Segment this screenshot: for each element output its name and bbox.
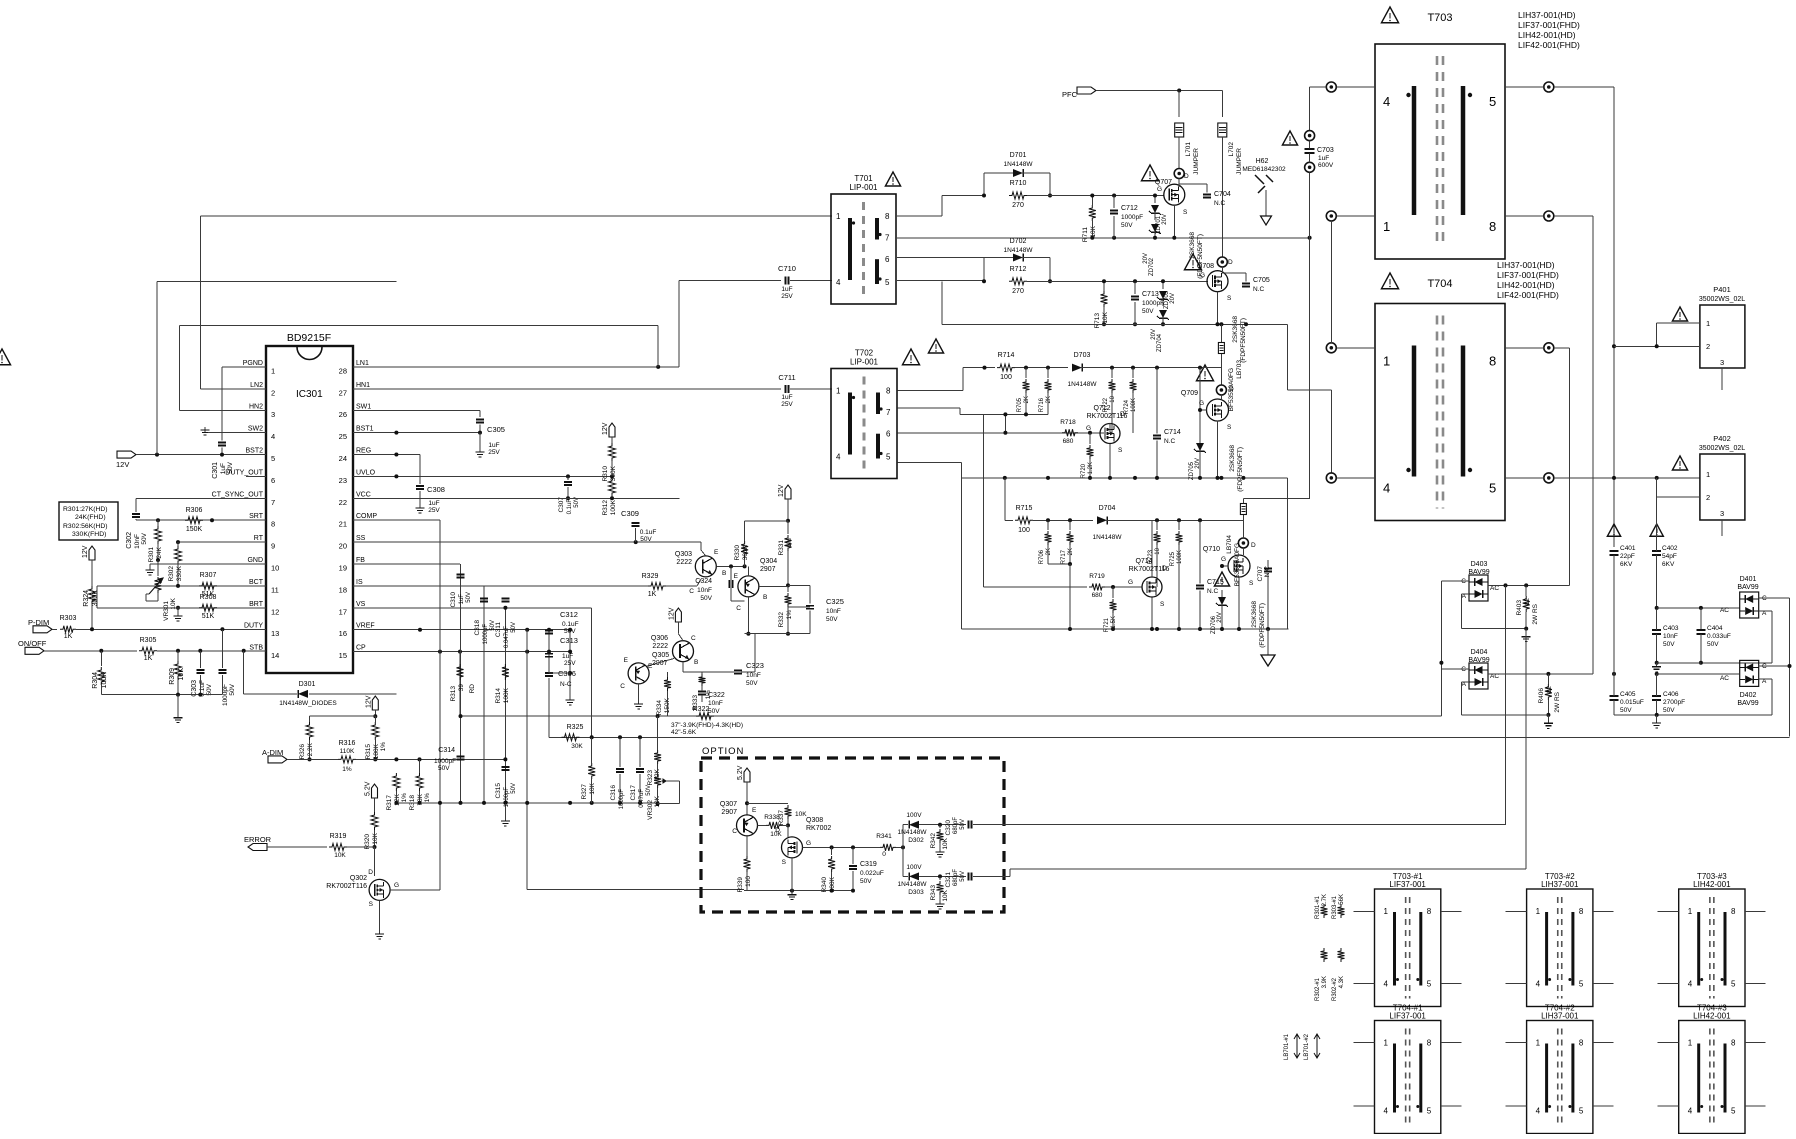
zener ZD704 20V [1159, 310, 1167, 318]
svg-text:C401: C401 [1620, 545, 1636, 552]
svg-text:R715: R715 [1016, 505, 1033, 512]
svg-text:1uF: 1uF [781, 394, 792, 401]
svg-text:35002WS_02L: 35002WS_02L [1699, 296, 1745, 303]
svg-text:1%: 1% [401, 793, 408, 803]
svg-text:ERROR: ERROR [244, 835, 272, 844]
svg-text:10nF: 10nF [134, 534, 141, 549]
capacitor C405 0.015uF 50V [1610, 695, 1619, 697]
svg-text:R304: R304 [92, 672, 99, 689]
row D701/R710 [941, 196, 943, 216]
svg-text:1: 1 [836, 212, 841, 221]
svg-text:2.2K: 2.2K [307, 742, 314, 756]
svg-text:50V: 50V [141, 532, 148, 544]
svg-text:100: 100 [1000, 374, 1012, 381]
svg-text:N.C: N.C [1214, 200, 1226, 207]
ground rail bottom left [101, 694, 222, 696]
svg-text:2907: 2907 [760, 566, 776, 573]
wire column x440 COMP to Q302 gate [439, 520, 441, 890]
wire pin9 RT [178, 541, 266, 543]
svg-text:D701: D701 [1010, 152, 1027, 159]
svg-text:50V: 50V [646, 785, 652, 796]
svg-text:1uF: 1uF [459, 594, 465, 605]
svg-text:T701: T701 [854, 174, 873, 183]
ground on rail [504, 803, 506, 821]
svg-text:8: 8 [1427, 1039, 1432, 1048]
svg-text:N.C: N.C [1253, 286, 1265, 293]
svg-text:LIH37-001: LIH37-001 [1541, 1012, 1579, 1021]
svg-text:10K: 10K [1090, 225, 1097, 237]
svg-text:HN1: HN1 [356, 382, 370, 389]
open ground triangle [1267, 629, 1269, 655]
svg-text:10K: 10K [372, 832, 379, 844]
svg-text:4: 4 [1383, 94, 1390, 109]
svg-text:8: 8 [1489, 219, 1496, 234]
resistor R706 2K [1047, 520, 1049, 530]
warning triangle at ZD706 [1214, 572, 1229, 586]
svg-text:P402: P402 [1713, 434, 1731, 443]
svg-text:1uF: 1uF [428, 500, 439, 507]
wire HN1 row to C711 to T702 pin1 [353, 388, 781, 390]
svg-text:1N4148W: 1N4148W [1093, 534, 1123, 541]
wire R305 to pin14 STB [157, 650, 266, 652]
bottom rail y803 [396, 802, 657, 804]
svg-text:1%: 1% [342, 766, 352, 773]
svg-text:S: S [1227, 295, 1232, 302]
svg-text:D: D [775, 827, 780, 834]
svg-text:7: 7 [271, 498, 275, 507]
svg-text:10nF: 10nF [697, 587, 712, 594]
svg-text:180K: 180K [373, 743, 380, 759]
svg-text:2: 2 [271, 388, 275, 397]
resistor R719 680 [1089, 584, 1105, 591]
P401 wires [1657, 322, 1700, 324]
svg-text:51K: 51K [202, 613, 215, 620]
resistor R301-#1 2.7K [1321, 904, 1328, 918]
svg-text:50V: 50V [826, 616, 838, 623]
capacitor C711 1uF 25V [785, 385, 787, 393]
svg-text:20: 20 [339, 542, 347, 551]
svg-text:10: 10 [1110, 395, 1116, 402]
svg-text:D401: D401 [1740, 576, 1757, 583]
svg-text:270: 270 [1012, 288, 1024, 295]
svg-text:C406: C406 [1663, 691, 1679, 698]
resistor R343 10K [939, 876, 941, 880]
svg-text:8: 8 [1731, 1039, 1736, 1048]
svg-text:VREF: VREF [356, 623, 375, 630]
wire REG row [353, 454, 420, 456]
svg-text:R314: R314 [495, 688, 502, 704]
wire row y737 R325 long [549, 736, 1790, 738]
OPTION ground rail [744, 890, 853, 892]
wire CP row [353, 651, 570, 653]
wire OPTION gate feed [527, 889, 744, 891]
row R714/D703 [963, 367, 995, 369]
svg-text:10K: 10K [589, 782, 596, 794]
wire pin12 BRT [97, 607, 266, 609]
svg-text:8: 8 [1427, 907, 1432, 916]
svg-text:BCT: BCT [249, 579, 264, 586]
svg-text:C308: C308 [427, 485, 445, 494]
svg-text:50V: 50V [466, 592, 472, 603]
resistor R330 300K [744, 557, 746, 566]
OPTION dashed box [701, 758, 1004, 912]
resistor R406 12 2W RS [1547, 674, 1549, 684]
svg-text:Q714: Q714 [1135, 558, 1152, 565]
svg-text:8: 8 [1579, 1039, 1584, 1048]
capacitor C402 54pF 6KV [1650, 524, 1663, 536]
svg-text:C: C [732, 828, 737, 835]
svg-text:S: S [1249, 580, 1254, 587]
svg-text:50V: 50V [708, 708, 720, 715]
svg-text:LB701-#1: LB701-#1 [1284, 1033, 1290, 1060]
svg-text:12: 12 [1546, 686, 1553, 694]
resistor R331 1% [787, 521, 789, 534]
wire VREF row [353, 629, 570, 631]
wire column x505 VS down [504, 608, 506, 803]
svg-text:12V: 12V [116, 460, 129, 469]
svg-text:D402: D402 [1740, 692, 1757, 699]
transformer T704-#1 LIF37-001 [1375, 1021, 1441, 1134]
svg-text:50V: 50V [860, 878, 872, 885]
svg-text:7: 7 [885, 234, 890, 243]
svg-text:4: 4 [836, 453, 841, 462]
wires of Q305 cluster [682, 662, 684, 672]
svg-text:17: 17 [339, 607, 347, 616]
svg-text:5: 5 [1579, 980, 1584, 989]
svg-text:IC301: IC301 [296, 389, 323, 400]
svg-text:1uF: 1uF [220, 463, 227, 474]
svg-text:0.033uF: 0.033uF [1707, 633, 1731, 640]
resistor R317 22K 1% [393, 773, 400, 791]
svg-text:100V: 100V [906, 864, 922, 871]
svg-text:G: G [1221, 556, 1226, 563]
wire pin11 BCT [97, 585, 266, 587]
svg-text:6: 6 [886, 430, 891, 439]
svg-text:300K: 300K [742, 544, 749, 560]
wire junction x1005 gate net [1004, 414, 1006, 432]
svg-text:R313: R313 [450, 686, 457, 702]
svg-text:8: 8 [886, 387, 891, 396]
svg-text:R338: R338 [764, 814, 780, 821]
svg-text:C: C [689, 588, 694, 595]
svg-text:Q307: Q307 [720, 801, 737, 808]
svg-text:R331: R331 [778, 540, 785, 556]
svg-text:27: 27 [339, 388, 347, 397]
svg-text:10: 10 [1155, 547, 1161, 554]
svg-text:1K: 1K [144, 655, 153, 662]
svg-text:R327: R327 [581, 784, 588, 800]
transformer T704-#2 LIH37-001 [1527, 1021, 1593, 1134]
svg-text:50V: 50V [746, 680, 758, 687]
wire rail478 drop to rail629 [1287, 478, 1289, 629]
svg-text:S: S [1183, 209, 1188, 216]
svg-text:1000pF: 1000pF [504, 787, 510, 808]
svg-text:C309: C309 [621, 509, 639, 518]
svg-text:PGND: PGND [243, 360, 263, 367]
capacitor C712 1000pF 50V [1113, 196, 1115, 209]
svg-text:R719: R719 [1089, 573, 1105, 580]
T702 right pin wires [898, 390, 963, 392]
svg-text:10K: 10K [178, 668, 185, 681]
wires D402 [1657, 673, 1740, 675]
svg-text:A-DIM: A-DIM [262, 748, 283, 757]
svg-text:R718: R718 [1060, 419, 1076, 426]
svg-text:2.7K: 2.7K [1322, 894, 1328, 906]
wire pin10 GND + ground [150, 563, 266, 565]
svg-text:10K: 10K [942, 837, 949, 849]
terminal circle Q710 drain [1238, 538, 1248, 548]
transistor Q708 2SK3668 [1207, 271, 1228, 292]
svg-text:S: S [782, 859, 787, 866]
svg-text:10nF: 10nF [826, 608, 841, 615]
wire VS row [353, 607, 505, 609]
wire pin8 SRT [136, 519, 266, 521]
resistor R326 2.2K [309, 716, 311, 722]
svg-text:FB: FB [356, 557, 365, 564]
wire column x570 caps to ground [569, 630, 571, 696]
wire pin7 CT_SYNC_OUT [136, 497, 266, 499]
svg-text:100K: 100K [101, 672, 108, 689]
svg-text:1.5K: 1.5K [1111, 616, 1117, 628]
svg-text:0.1uF: 0.1uF [562, 621, 579, 628]
wire VCC row [353, 497, 680, 499]
svg-text:21: 21 [339, 520, 347, 529]
svg-text:50V: 50V [227, 461, 234, 473]
svg-text:39: 39 [458, 684, 465, 692]
svg-text:C311: C311 [495, 622, 502, 637]
resistor R722 10 [1111, 368, 1113, 378]
transistor Q303 2222 [695, 556, 716, 577]
svg-text:LIF37-001(FHD): LIF37-001(FHD) [1518, 20, 1580, 30]
capacitor C710 1uF 25V [785, 276, 787, 284]
svg-text:VR302: VR302 [647, 800, 654, 820]
transistor Q304 2907 [738, 576, 759, 597]
capacitor C714 N-C [1153, 435, 1161, 437]
svg-text:1%: 1% [424, 793, 431, 803]
power flag 12V above R315 [372, 696, 378, 710]
svg-text:270: 270 [1012, 202, 1024, 209]
ground near C301 [205, 432, 222, 434]
wire Q710 gate stub [1222, 565, 1228, 567]
svg-text:R710: R710 [1010, 180, 1027, 187]
wire Q304 base [759, 585, 788, 587]
svg-text:6KV: 6KV [1662, 561, 1675, 568]
wire pin2 LN2 long loop to T701 pin1 [201, 388, 267, 390]
svg-text:D702: D702 [1010, 238, 1027, 245]
rail y237 dots [1308, 236, 1312, 240]
svg-text:R307: R307 [200, 572, 217, 579]
T703/T704 right side risers [1554, 86, 1614, 88]
svg-text:R306: R306 [186, 507, 203, 514]
link R706/R717 bottoms [1048, 563, 1070, 565]
svg-text:4: 4 [1384, 1107, 1389, 1116]
note box R301/R302 values [59, 502, 118, 540]
svg-text:1N4148W_DIODES: 1N4148W_DIODES [279, 700, 337, 707]
svg-text:C404: C404 [1707, 625, 1723, 632]
svg-text:1K: 1K [64, 633, 73, 640]
svg-text:LIP-001: LIP-001 [849, 183, 878, 192]
svg-text:LB703: LB703 [1236, 360, 1243, 379]
svg-text:25V: 25V [564, 660, 576, 667]
svg-text:5: 5 [1427, 1107, 1432, 1116]
svg-text:30K: 30K [571, 743, 583, 750]
transistor Q308 RK7002 [782, 837, 803, 858]
diode D301 1N4148W [244, 693, 297, 695]
risers to small transformers [1505, 585, 1507, 824]
svg-text:H62: H62 [1256, 158, 1269, 165]
terminal ERROR [248, 844, 267, 851]
svg-text:1: 1 [1383, 354, 1390, 369]
svg-text:GND: GND [247, 557, 263, 564]
svg-text:2: 2 [1706, 342, 1710, 351]
svg-text:R310: R310 [602, 466, 609, 482]
Q714 drain up [1151, 520, 1153, 577]
svg-text:1N4148W: 1N4148W [1068, 381, 1098, 388]
svg-text:T704: T704 [1427, 278, 1452, 290]
svg-text:R326: R326 [299, 744, 306, 760]
terminal ON/OFF [25, 647, 44, 654]
svg-text:100: 100 [1018, 527, 1030, 534]
capacitor C310 1uF 50V [457, 574, 465, 576]
svg-text:1uF: 1uF [1318, 155, 1329, 162]
svg-text:0.047uF: 0.047uF [504, 626, 510, 648]
svg-text:100: 100 [745, 876, 752, 887]
svg-text:R721: R721 [1104, 617, 1110, 632]
svg-text:0.1uF: 0.1uF [567, 499, 573, 515]
svg-text:(FDPF5N50FT): (FDPF5N50FT) [1237, 447, 1244, 492]
svg-text:50V: 50V [206, 683, 213, 695]
svg-text:C325: C325 [826, 597, 844, 606]
resistor R301 24K [157, 520, 159, 526]
wire riser to BST1 jog [157, 280, 396, 282]
diode D302 1N4148W 100V [909, 821, 919, 829]
svg-text:R403: R403 [1516, 600, 1523, 616]
svg-text:R332: R332 [778, 612, 785, 628]
svg-text:10nF: 10nF [708, 700, 723, 707]
svg-text:56K: 56K [1339, 894, 1345, 905]
resistor R307 51K [199, 582, 217, 589]
svg-text:R342: R342 [930, 833, 937, 849]
svg-text:D303: D303 [908, 889, 924, 896]
svg-text:7: 7 [886, 408, 891, 417]
capacitor C318 1000pF 50V [480, 598, 488, 600]
svg-text:JUMPER: JUMPER [1193, 148, 1200, 175]
resistor R308 51K [199, 604, 217, 611]
wire Q709 gate stub [1200, 409, 1207, 411]
svg-text:C403: C403 [1663, 625, 1679, 632]
transistor Q302 RK7002T116 [369, 879, 390, 900]
svg-text:1: 1 [1536, 907, 1541, 916]
resistor R312 100K [609, 478, 616, 496]
svg-text:1uF: 1uF [562, 653, 573, 660]
svg-text:ZD704: ZD704 [1157, 333, 1163, 352]
svg-text:COMP: COMP [356, 513, 377, 520]
capacitor C324 10nF 50V [730, 566, 732, 580]
capacitor C314 1000pF 50V [457, 756, 465, 758]
terminal circles T703 [1326, 82, 1336, 92]
svg-text:10K: 10K [1102, 311, 1109, 323]
wires D404 [1488, 673, 1593, 675]
svg-text:LIF37-001: LIF37-001 [1389, 880, 1426, 889]
svg-text:5: 5 [1489, 481, 1496, 496]
transistor Q709 2SK3668 [1207, 399, 1229, 421]
resistor R713 10K [1103, 281, 1105, 291]
svg-text:C320: C320 [945, 820, 952, 836]
svg-text:C712: C712 [1121, 205, 1138, 212]
svg-text:R713: R713 [1094, 313, 1101, 329]
svg-text:R341: R341 [876, 833, 892, 840]
power flag 5.2V [372, 784, 378, 798]
svg-text:8: 8 [271, 520, 275, 529]
svg-text:28: 28 [339, 366, 347, 375]
svg-text:Q302: Q302 [350, 875, 367, 882]
svg-text:G: G [806, 840, 811, 847]
svg-text:2222: 2222 [652, 643, 668, 650]
svg-text:UVLO: UVLO [356, 469, 376, 476]
svg-text:C321: C321 [945, 872, 952, 888]
svg-text:1uF: 1uF [488, 442, 499, 449]
svg-text:12V: 12V [82, 545, 89, 558]
diode D701 1N4148W bypass [983, 173, 985, 196]
svg-text:(FDPF5N50FT): (FDPF5N50FT) [1259, 603, 1266, 648]
svg-text:LIH42-001(HD): LIH42-001(HD) [1518, 30, 1576, 40]
svg-text:100V: 100V [906, 812, 922, 819]
svg-text:1000pF: 1000pF [434, 758, 456, 765]
capacitor C317 0.47uF 50V [636, 768, 644, 770]
svg-text:LIH42-001: LIH42-001 [1693, 1012, 1731, 1021]
svg-text:Q305: Q305 [652, 652, 669, 659]
wire riser HN2 to C711 [657, 325, 659, 367]
svg-text:S: S [369, 901, 374, 908]
svg-text:C315: C315 [495, 783, 502, 799]
P402 wires [1656, 478, 1658, 497]
capacitor C311 0.047uF 50V [501, 598, 509, 600]
svg-text:C402: C402 [1662, 545, 1678, 552]
svg-text:LN1: LN1 [356, 360, 369, 367]
diode D703 1N4148W [1072, 364, 1082, 372]
svg-text:680: 680 [1092, 592, 1103, 599]
svg-text:N-C: N-C [560, 681, 572, 688]
warning triangle left edge [0, 349, 11, 365]
svg-text:24K(FHD): 24K(FHD) [75, 514, 106, 521]
transformer T703-#3 LIH42-001 [1679, 889, 1745, 1007]
diode D402 BAV99 [1740, 660, 1759, 686]
svg-text:5: 5 [1489, 94, 1496, 109]
svg-text:4: 4 [1536, 980, 1541, 989]
svg-text:DUTY: DUTY [244, 623, 263, 630]
svg-text:23: 23 [339, 476, 347, 485]
resistor R723 10 [1156, 520, 1158, 530]
jumper L702 [1221, 91, 1223, 118]
svg-text:300K: 300K [92, 590, 99, 607]
svg-text:37"-3.9K(FHD)-4.3K(HD): 37"-3.9K(FHD)-4.3K(HD) [671, 722, 743, 729]
ground of C305 [479, 433, 481, 448]
svg-text:22pF: 22pF [1620, 553, 1635, 560]
svg-text:E: E [714, 549, 719, 556]
svg-text:12V: 12V [602, 422, 609, 435]
svg-text:1N4148W: 1N4148W [1004, 247, 1034, 254]
svg-text:25V: 25V [488, 449, 500, 456]
capacitor C707 N-C [1264, 568, 1272, 570]
svg-text:N.C: N.C [1207, 588, 1219, 595]
capacitor C301 1uF 50V [218, 442, 226, 444]
svg-text:10K: 10K [334, 852, 346, 859]
svg-text:12V: 12V [365, 695, 372, 708]
svg-text:E: E [624, 657, 629, 664]
svg-text:LIF37-001(FHD): LIF37-001(FHD) [1497, 270, 1559, 280]
transformer T701 LIP-001 [831, 194, 896, 304]
resistor R403 12 2W RS [1525, 585, 1527, 596]
